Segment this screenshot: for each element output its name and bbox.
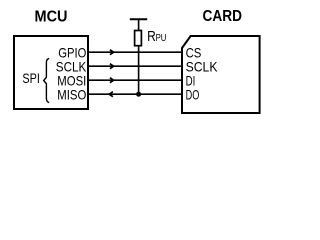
svg-text:PU: PU (156, 33, 167, 44)
wire power bar to resistor top (138, 19, 140, 30)
svg-text:SPI: SPI (22, 70, 40, 86)
wire SCLK to SCLK (89, 65, 181, 67)
wire resistor bottom to MISO/DO net (138, 46, 140, 94)
svg-text:DO: DO (186, 86, 200, 102)
arrow left on MISO/DO wire (109, 92, 113, 97)
CARD block box (chamfered corner) (182, 36, 260, 113)
wire MOSI to DI (89, 79, 181, 81)
svg-text:R: R (147, 28, 156, 45)
wire GPIO to CS (89, 51, 181, 53)
wire MISO to DO (89, 93, 181, 95)
arrow right on GPIO/CS wire (110, 50, 114, 55)
arrow right on SCLK wire (110, 64, 114, 69)
SPI group brace (44, 58, 50, 102)
junction dot on MISO/DO net (136, 92, 141, 97)
arrow right on MOSI/DI wire (110, 78, 114, 83)
MCU block U1 box (14, 36, 88, 109)
resistor RPU body (135, 31, 142, 46)
svg-text:CARD: CARD (203, 8, 243, 25)
svg-text:MCU: MCU (35, 8, 68, 25)
power rail symbol (T bar) (130, 18, 147, 20)
svg-text:MISO: MISO (57, 86, 86, 102)
